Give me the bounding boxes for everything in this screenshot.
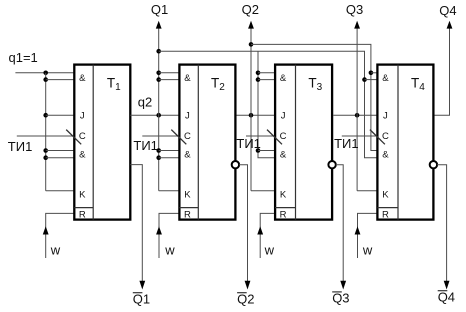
svg-text:K: K	[184, 189, 191, 200]
node dot T3 AND b tap	[256, 77, 261, 82]
node dot q3 joins Q2 riser	[249, 113, 254, 118]
wire T4 Q output to Q4	[435, 28, 450, 115]
wire T3 Q output q4 to T4 J	[333, 114, 377, 116]
arrowhead Q-bar-1	[139, 281, 145, 290]
node dot lower AND b	[43, 155, 48, 160]
arrowhead Q3	[354, 21, 360, 29]
wire TI1 to T3 C input	[246, 135, 275, 137]
svg-text:K: K	[280, 189, 287, 200]
wire Q2 riser vertical	[250, 28, 252, 191]
node dot T3 AND a tap	[256, 71, 261, 76]
svg-text:&: &	[280, 150, 287, 161]
svg-text:J: J	[383, 111, 388, 122]
T3 R section divider	[275, 207, 295, 209]
arrowhead Q-bar-2	[245, 281, 251, 290]
wire stub to T3 AND input c	[258, 150, 275, 152]
wire to T1 J input	[46, 114, 75, 116]
svg-text:R: R	[184, 209, 191, 220]
svg-text:w: w	[50, 243, 61, 258]
wire to T1 K input	[46, 190, 75, 192]
svg-text:&: &	[382, 150, 389, 161]
wire TI1 to T1 C input	[17, 135, 75, 137]
svg-text:&: &	[79, 73, 86, 84]
wire w to T2 R input	[159, 213, 179, 258]
svg-text:J: J	[80, 111, 85, 122]
flip-flop T1 box	[74, 65, 130, 220]
svg-text:ТИ1: ТИ1	[8, 139, 33, 154]
T3 input column divider	[295, 65, 297, 220]
wire TI1 to T4 C input	[342, 135, 378, 137]
flip-flop T4 box	[377, 65, 433, 220]
node dot T4 AND b tap	[362, 77, 367, 82]
arrowhead w2	[156, 226, 162, 234]
wire q1 bus vertical	[45, 73, 47, 191]
T4 R section divider	[377, 207, 398, 209]
svg-text:q2: q2	[138, 95, 152, 110]
wire stub Q2 to T4 AND input a	[371, 72, 378, 74]
svg-text:Q3: Q3	[346, 2, 363, 17]
svg-text:Q4: Q4	[438, 290, 455, 305]
svg-text:C: C	[280, 131, 287, 142]
overline Q-bar-1	[133, 292, 143, 294]
wire Q3 riser vertical	[356, 28, 358, 191]
svg-text:ТИ1: ТИ1	[334, 136, 359, 151]
wire TI1 to T2 C input	[142, 135, 179, 137]
wire to T1 AND input d	[46, 157, 75, 159]
svg-text:Q2: Q2	[237, 292, 254, 307]
T2 input column divider	[197, 65, 199, 220]
svg-text:J: J	[281, 111, 286, 122]
svg-text:Q4: Q4	[439, 3, 456, 18]
node dot T2 lower AND a tap	[156, 148, 161, 153]
wire w to T3 R input	[260, 213, 275, 258]
wire to T1 AND input c	[46, 150, 75, 152]
svg-text:w: w	[264, 243, 275, 258]
wire stub to T3 AND input b	[258, 79, 275, 81]
svg-text:Q1: Q1	[133, 292, 150, 307]
arrowhead Q1	[156, 21, 162, 29]
svg-text:R: R	[79, 209, 86, 220]
wire to T1 AND input b	[46, 79, 75, 81]
wire Q1 branch down to T3 AND	[258, 51, 275, 158]
wire Q1 feedback to T4 AND	[159, 51, 378, 158]
wire stub to T2 AND input a	[159, 72, 180, 74]
T1 input column divider	[92, 65, 94, 220]
wire to T4 K input	[357, 190, 377, 192]
wire to T2 K input	[159, 190, 180, 192]
arrowhead Q4	[447, 21, 453, 29]
svg-text:w: w	[164, 243, 175, 258]
T2 R section divider	[179, 207, 198, 209]
svg-text:w: w	[362, 243, 373, 258]
T4 input column divider	[397, 65, 399, 220]
arrowhead w1	[43, 226, 49, 234]
wire stub to T2 AND input b	[159, 79, 180, 81]
inversion bubble T4	[430, 161, 437, 168]
wire q1=1 input to T1	[15, 72, 74, 74]
node dot T3 lower AND tap	[256, 148, 261, 153]
wire w to T4 R input	[358, 213, 378, 258]
svg-text:ТИ1: ТИ1	[236, 136, 261, 151]
wire Q1 riser vertical	[158, 28, 160, 191]
svg-text:Q3: Q3	[332, 291, 349, 306]
node dot T4 AND a tap	[369, 71, 374, 76]
dynamic input slash T1	[66, 130, 81, 145]
wire Q2 feedback to T4 AND	[251, 44, 377, 150]
overline Q-bar-3	[332, 291, 342, 293]
svg-text:C: C	[382, 131, 389, 142]
wire w to T1 R input	[46, 213, 75, 258]
node dot q4 joins Q3 riser	[355, 113, 360, 118]
wire stub to T2 AND input d	[159, 157, 180, 159]
svg-text:&: &	[184, 73, 191, 84]
node dot lower AND a	[43, 148, 48, 153]
wire T3 inverse output to Q-bar-3	[336, 165, 343, 281]
arrowhead Q2	[248, 21, 254, 29]
svg-text:Q2: Q2	[242, 2, 259, 17]
svg-text:C: C	[184, 131, 191, 142]
svg-text:R: R	[382, 209, 389, 220]
svg-text:Q1: Q1	[151, 2, 168, 17]
node dot q2 joins Q1 riser	[156, 113, 161, 118]
wire stub to T2 AND input c	[159, 150, 180, 152]
node dot Q2 feedback tap	[249, 42, 254, 47]
node dot q1 bus top	[43, 71, 48, 76]
dynamic input slash T2	[171, 130, 186, 145]
inversion bubble T2	[232, 161, 239, 168]
arrowhead w4	[355, 226, 361, 234]
svg-text:&: &	[280, 73, 287, 84]
wire stub Q1 to T4 AND input b	[365, 79, 378, 81]
svg-text:&: &	[79, 150, 86, 161]
node dot q1 bus second	[43, 77, 48, 82]
arrowhead w3	[257, 226, 263, 234]
wire T2 Q output q3 to T3 J	[237, 114, 276, 116]
svg-text:K: K	[79, 189, 86, 200]
T1 R section divider	[74, 207, 93, 209]
node dot T2 lower AND b tap	[156, 155, 161, 160]
inversion bubble T3	[328, 161, 335, 168]
svg-text:C: C	[79, 131, 86, 142]
node dot T2 AND a tap	[156, 71, 161, 76]
node dot T2 AND b tap	[156, 77, 161, 82]
overline Q-bar-4	[438, 290, 448, 292]
wire T4 inverse output to Q-bar-4	[437, 165, 447, 281]
svg-text:q1=1: q1=1	[9, 50, 38, 65]
wire T1 Q output q2 to T2 J	[130, 114, 179, 116]
svg-text:&: &	[382, 73, 389, 84]
flip-flop T3 box	[275, 65, 332, 220]
wire stub to T3 AND input a	[258, 72, 275, 74]
svg-text:R: R	[280, 209, 287, 220]
arrowhead Q-bar-3	[340, 281, 346, 290]
dynamic input slash T3	[267, 130, 282, 145]
svg-text:J: J	[185, 111, 190, 122]
wire T2 inverse output to Q-bar-2	[239, 165, 247, 281]
svg-text:ТИ1: ТИ1	[133, 138, 158, 153]
overline Q-bar-2	[237, 292, 247, 294]
flip-flop T2 box	[179, 65, 235, 220]
svg-text:K: K	[382, 189, 389, 200]
svg-text:&: &	[184, 150, 191, 161]
arrowhead Q-bar-4	[444, 281, 450, 290]
node dot at J tap	[43, 113, 48, 118]
dynamic input slash T4	[370, 130, 385, 145]
node dot Q1 feedback tap	[156, 49, 161, 54]
wire to T3 K input	[251, 190, 275, 192]
wire T1 inverse output to Q-bar-1	[130, 165, 142, 281]
